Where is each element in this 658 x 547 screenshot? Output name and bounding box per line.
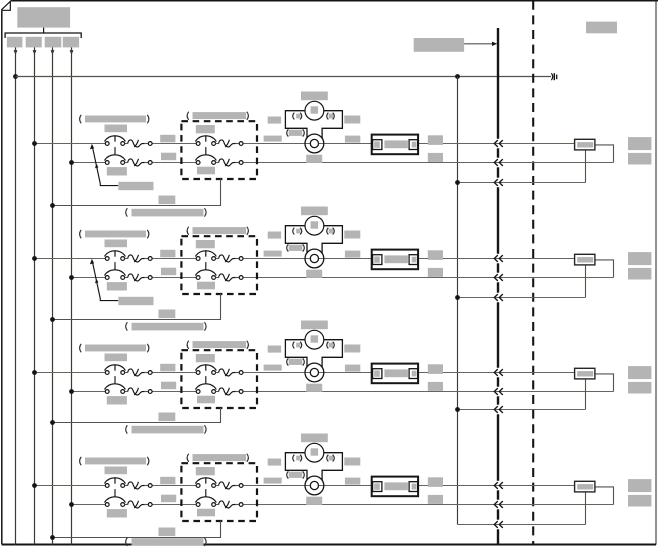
ground G1 [551,73,556,80]
bus wire W3 [52,47,54,544]
wire label row3 top pre-relay [160,364,175,372]
motor M3 gray label above [301,321,328,330]
wire row1 feed bottom [72,162,106,164]
motor M1 top terminal [311,106,319,113]
harness boundary line (dashed) [532,1,534,545]
fuse box F1 [7,37,23,48]
wire label row2 return [159,310,176,319]
switch SW2B [105,270,153,281]
motor M4 terminal L [293,455,295,462]
motor M1 terminal R [327,113,329,120]
connector chevrons row2 top [494,255,503,262]
wire label row3 return [159,413,176,422]
motor M4 top terminal [311,448,319,455]
wire label row1 bottom post [428,153,443,162]
label relay K4 inner bottom [197,509,215,517]
wire label row3 bottom pre-relay [161,382,176,390]
motor M3 terminal L [293,342,295,349]
plug P2 loop right [595,260,614,278]
plug P3 body [575,368,595,379]
wire label row4 top post [428,477,443,487]
label row3 name [80,344,82,352]
wire row2 top to motor [243,258,575,260]
title box (power source) [17,7,70,27]
page border left [1,10,3,544]
wire title to bracket [43,28,45,33]
label relay K4 name [187,454,189,462]
label row2 sub [105,240,128,248]
wire row3 feed bottom [72,391,106,393]
motor M4 terminal R [327,455,329,462]
motor M2 terminal L [293,228,295,235]
node row1 return bus [50,203,55,208]
motor M2 rotor [305,249,324,268]
arrow into bus wire W2 [33,50,37,54]
switch SW2A/B link [114,262,116,270]
label below motor M2 [306,270,322,278]
connector J1 pin 2 [409,140,418,150]
label row1 below SW1B [107,167,127,175]
label below motor M4 [306,497,322,505]
node row2 return bus [50,317,55,322]
wire label row1 top pre-relay [160,135,175,143]
wire row2 bottom mid [152,277,196,279]
page border top [11,0,658,2]
relay contact link K1 [205,147,207,155]
node row2 top bus [32,256,37,261]
connector chevrons row1 third [494,179,503,186]
label right of motor M3 [344,345,360,353]
node A junction [13,74,18,79]
switch SW4B [105,497,153,508]
page corner fold [1,1,11,11]
label far right row3 B [628,382,651,394]
connector J2 body [372,250,418,270]
label relay K3 inner top [196,354,215,362]
fuse box F4 [63,37,79,48]
label row3 below SW3B [107,396,127,404]
connector J4 body [372,477,418,497]
wire row4 return [53,521,221,538]
wire row2 third [458,297,586,299]
switch SW1A [105,135,153,147]
wire row2 top mid [152,258,196,260]
connector J3 pin 2 label [412,371,417,377]
label row1 sub [105,125,128,133]
fuse box F3 [45,37,62,48]
motor M2 top terminal [311,221,319,228]
plug P4 drop wire [585,492,587,525]
wire row4 top to motor [243,485,575,487]
connector J4 pin 2 label [412,484,417,490]
node row2 bottom bus [69,275,74,280]
label left low of motor M2 [264,251,282,257]
motor M4 gray label above [301,434,328,443]
fuse box F2 [26,37,42,48]
label box top right [586,22,617,34]
label left low of motor M3 [264,365,282,371]
relay contact K3A [195,364,243,376]
motor M1 connector label [287,129,289,136]
connector chevrons row2 third [494,294,503,301]
motor M1 rotor [305,134,324,153]
switch SW1A/B link [114,147,116,155]
label right low of motor M4 [345,478,360,485]
wire row2 feed bottom [72,277,106,279]
wire label row1 top post [428,135,443,145]
plug P4 label [577,484,593,489]
label relay K1 inner top [196,125,215,133]
relay contact K1B [195,155,243,166]
label right of motor M2 [344,231,360,239]
mechanical link arrow row1 [90,144,118,186]
connector chevrons row1 top [494,140,503,147]
motor M4 rotor [305,476,324,495]
relay contact K2B [195,270,243,281]
label right low of motor M1 [345,136,360,143]
wire row1 top to motor [243,143,575,145]
connector chevrons row4 third [494,521,503,528]
node row3 feeder [455,407,460,412]
motor M3 housing [285,340,342,368]
node row4 bottom bus [69,502,74,507]
label relay K3 inner bottom [197,396,215,404]
label far right row1 A [628,137,651,150]
relay contact link K3 [205,376,207,384]
mechanical link arrow row2 [90,259,118,301]
label far right row3 A [628,366,651,379]
motor M1 gray label above [301,92,328,101]
connector chevrons row2 bottom [494,274,503,281]
feeder wire vertical [457,77,459,525]
label row2 below SW2B [107,282,127,290]
plug P2 drop wire [585,265,587,298]
plug P2 body [575,254,595,265]
wire row4 third [458,524,586,526]
wire row1 return [53,179,221,206]
wire label row2 bottom pre-relay [161,268,176,276]
connector J2 pin 1 [373,255,382,265]
node row1 bottom bus [69,160,74,165]
wire label row4 bottom post [428,495,443,504]
label left low of motor M4 [264,478,282,484]
bus wire W1 [15,47,17,544]
label relay K3 name [187,341,189,349]
wire row3 third [458,409,586,411]
relay contact K4B [195,497,243,508]
motor M2 top circle [305,216,324,235]
label right of motor M1 [344,116,360,124]
arrow into bus wire W3 [51,50,55,54]
connector J3 pin 1 label [374,370,380,376]
switch SW4A/B link [114,489,116,497]
label relay K2 inner bottom [197,282,215,290]
label switch assembly row2 [118,297,153,305]
connector J1 pin 1 label [374,141,380,147]
node row1 top bus [32,141,37,146]
switch SW2A [105,250,153,262]
wire row1 bottom long [243,162,614,164]
label below motor M1 [306,155,322,163]
arrow wire to junction line [464,43,492,45]
wire row1 feed top [35,143,106,145]
wire row2 bottom long [243,277,614,279]
wire row1 top mid [152,143,196,145]
label left of motor M4 [268,459,281,466]
plug P4 body [575,481,595,492]
connector J3 center label [384,369,408,377]
label row4 sub [105,467,128,475]
plug P1 body [575,139,595,150]
label row1 return circuit [126,208,128,216]
junction block line (solid) [497,28,499,545]
label left low of motor M1 [264,136,282,142]
motor M1 terminal L [293,113,295,120]
page border bottom [2,544,656,546]
label far right row2 A [628,252,651,265]
label far right row1 B [628,153,651,165]
wire row3 bottom long [243,391,614,393]
motor M3 connector label [287,358,289,365]
label far right row2 B [628,268,651,280]
relay K2 (dashed box) [181,236,257,294]
wire label row4 top pre-relay [160,477,175,485]
connector J2 pin 1 label [374,256,380,262]
switch SW4A [105,477,153,489]
label relay K1 inner bottom [197,167,215,175]
node row1 feeder [455,180,460,185]
wire row4 feed top [35,485,106,487]
arrow into bus wire W1 [14,50,18,54]
connector chevrons row3 top [494,369,503,376]
label row4 name [80,457,82,465]
connector J1 pin 2 label [412,142,417,148]
label relay K2 name [187,227,189,235]
plug P3 drop wire [585,379,587,410]
wire row2 return [53,294,221,320]
relay K4 (dashed box) [181,463,257,521]
label row1 name [80,115,82,123]
connector J4 center label [384,482,408,490]
motor M2 connector label [287,244,289,251]
label left of motor M3 [268,346,281,353]
relay contact K2A [195,250,243,262]
motor M4 connector label [287,471,289,478]
top rail wire [16,76,552,78]
wire label row4 bottom pre-relay [161,495,176,503]
switch SW1B [105,155,153,166]
connector chevrons row3 bottom [494,388,503,395]
label relay K2 inner top [196,240,215,248]
wire row1 third [458,182,586,184]
label row2 name [80,230,82,238]
label left of motor M1 [268,117,281,124]
switch SW3A/B link [114,376,116,384]
node row3 bottom bus [69,389,74,394]
connector chevrons row3 third [494,406,503,413]
label far right row4 B [628,495,651,507]
connector J1 body [372,135,418,155]
wire row4 bottom long [243,504,614,506]
wire label row4 return [159,528,176,537]
label row4 return circuit [126,538,128,546]
node row2 feeder [455,295,460,300]
bus wire W2 [34,47,36,544]
distribution bracket [5,33,81,38]
relay contact K1A [195,135,243,147]
motor M3 top circle [305,330,324,349]
label relay K4 inner top [196,467,215,475]
motor M2 gray label above [301,207,328,216]
label row3 return circuit [126,425,128,433]
connector chevrons row4 top [494,482,503,489]
label right low of motor M2 [345,251,360,258]
connector J3 pin 2 [409,369,418,379]
wire label row2 bottom post [428,268,443,277]
wire label row3 top post [428,364,443,374]
label relay K1 name [187,112,189,120]
relay K3 (dashed box) [181,350,257,408]
connector J3 body [372,364,418,384]
relay contact K4A [195,477,243,489]
motor M1 top circle [305,101,324,120]
bus wire W4 [71,47,73,544]
wire row2 feed top [35,258,106,260]
label row3 sub [105,354,128,362]
arrow into bus wire W4 [70,50,74,54]
motor M1 housing [285,111,342,139]
wire row4 top mid [152,485,196,487]
plug P2 label [577,257,593,262]
motor M2 terminal R [327,228,329,235]
motor M4 top circle [305,443,324,462]
motor M3 top terminal [311,335,319,342]
motor M2 housing [285,226,342,254]
wire label row1 return [159,196,176,205]
node B junction [455,74,460,79]
motor M3 rotor [305,363,324,382]
connector J4 pin 1 label [374,483,380,489]
wire row3 return [53,408,221,423]
label right of motor M4 [344,458,360,466]
relay K1 (dashed box) [181,121,257,179]
connector J1 center label [384,140,408,148]
node row3 return bus [50,420,55,425]
relay contact link K4 [205,489,207,497]
label box ECU [414,38,464,52]
label row2 return circuit [126,322,128,330]
label row4 below SW4B [107,509,127,517]
connector J1 pin 1 [373,140,382,150]
wire row4 feed bottom [72,504,106,506]
wire row3 top to motor [243,372,575,374]
label left of motor M2 [268,232,281,239]
wire label row2 top pre-relay [160,250,175,257]
connector J3 pin 1 [373,369,382,379]
node row4 top bus [32,483,37,488]
wire label row3 bottom post [428,382,443,391]
relay contact link K2 [205,262,207,270]
plug P1 drop wire [585,150,587,183]
connector chevrons row1 bottom [494,159,503,166]
page border right [655,1,657,545]
switch SW3B [105,384,153,395]
node row3 top bus [32,370,37,375]
plug P1 label [577,142,593,147]
wire row1 bottom mid [152,162,196,164]
connector J4 pin 1 [373,482,382,492]
connector J4 pin 2 [409,482,418,492]
connector chevrons row4 bottom [494,501,503,508]
arrowhead at junction line [492,42,497,46]
relay contact K3B [195,384,243,395]
connector J2 center label [384,255,408,263]
plug P3 label [577,371,593,376]
wire label row2 top post [428,250,443,260]
label switch assembly row1 [118,182,153,190]
wire row4 bottom mid [152,504,196,506]
wire row3 feed top [35,372,106,374]
label right low of motor M3 [345,365,360,372]
plug P4 loop right [595,487,614,505]
motor M4 housing [285,453,342,481]
label below motor M3 [306,384,322,392]
motor M3 terminal R [327,342,329,349]
node row4 return bus [50,535,55,540]
wire row3 bottom mid [152,391,196,393]
wire row3 top mid [152,372,196,374]
plug P3 loop right [595,374,614,392]
label far right row4 A [628,479,651,492]
connector J2 pin 2 label [412,257,417,263]
connector J2 pin 2 [409,255,418,265]
wire label row1 bottom pre-relay [161,153,176,161]
switch SW3A [105,364,153,376]
plug P1 loop right [595,145,614,163]
